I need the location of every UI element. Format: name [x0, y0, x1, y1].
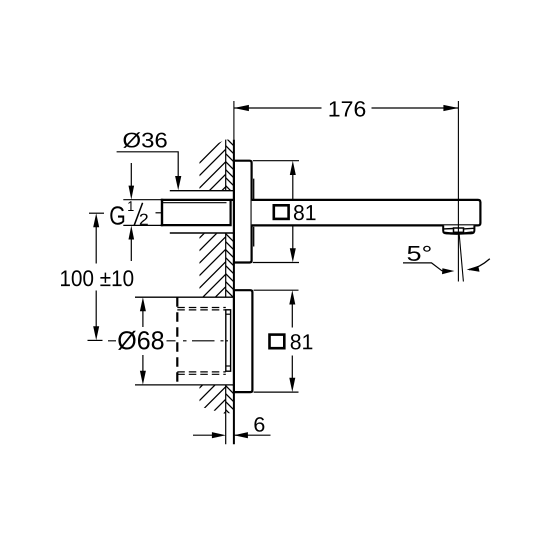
concealed body bottom edges (dashed) [177, 371, 226, 373]
dimension diameter 68 [118, 297, 234, 385]
dimension diameter 36 [117, 132, 182, 190]
tile hatch lower block [226, 385, 234, 413]
tile outer (wall) surface line [233, 101, 235, 140]
sleeve through tile [226, 310, 231, 371]
drill hole 36 bottom edge [170, 232, 234, 234]
dimension G 1/2 [110, 163, 161, 261]
wall hatch middle block [200, 234, 226, 297]
tile hatch middle block [226, 234, 234, 297]
concealed body rear edge (dashed) [176, 297, 178, 385]
dimension square 81 lower [254, 290, 313, 392]
concealed body top edges (dashed) [177, 307, 226, 309]
spout body [252, 200, 481, 226]
tile inner surface line [225, 140, 227, 445]
dimension 100 plus-minus 10 [61, 213, 133, 340]
wall plate lower (escutcheon 81) [234, 290, 253, 392]
vertical reference line (176 extension / spout axis) [457, 101, 459, 282]
wall hatch upper block [200, 139, 227, 190]
spout flange edge marks [253, 179, 255, 247]
supply pipe G1/2 [161, 199, 234, 226]
drill hole 36 top edge [170, 190, 234, 192]
dimension 6 (tile thickness) [193, 417, 271, 438]
annotation 5 degrees [403, 246, 490, 275]
dimension square 81 upper [253, 161, 316, 263]
tilted 5 degree line [459, 232, 463, 282]
wall hatch lower block [200, 385, 227, 414]
aerator / mousseur [443, 225, 474, 233]
wall plate upper (escutcheon 81) [234, 161, 252, 263]
tile hatch upper block [226, 140, 234, 190]
dimension 176 [234, 101, 459, 117]
centerline of concealed body [108, 340, 228, 342]
